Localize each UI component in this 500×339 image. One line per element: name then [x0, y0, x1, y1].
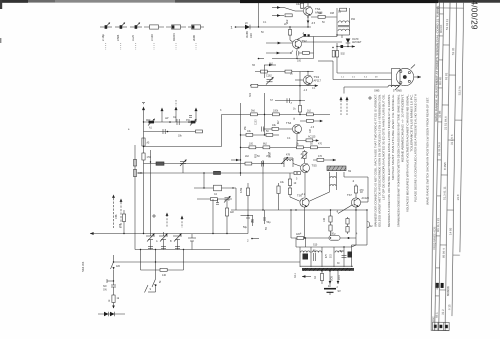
alignment table column line 4 [445, 3, 450, 331]
wire osc row 2 [197, 198, 232, 200]
switch contact arrow e [264, 64, 276, 67]
svg-text:8 4N5: 8 4N5 [443, 162, 447, 170]
resistor R43 [314, 271, 324, 284]
wire down to OT left [295, 238, 297, 247]
capacitor C31 [216, 199, 219, 204]
left film edge mark lower [0, 38, 1, 43]
wire row 71 [255, 71, 302, 73]
wire TS3 emitter row [250, 84, 318, 87]
wire TS2 collector up [297, 34, 337, 40]
svg-text:5O: 5O [266, 227, 268, 230]
svg-text:100: 100 [297, 60, 302, 63]
svg-text:C103: C103 [256, 119, 258, 125]
switch contact arrow a [272, 6, 295, 11]
node E [296, 147, 297, 148]
svg-text:X20: X20 [249, 33, 253, 38]
antenna stub 4 [195, 108, 198, 123]
switch SK2 contact [111, 255, 121, 281]
resistor R31 [142, 138, 150, 146]
dashed stub arrow 2 [346, 97, 349, 116]
wire TS6 base [290, 192, 330, 201]
resistor R45 [277, 183, 280, 210]
resistor R30 [294, 172, 300, 175]
wire SK right drop [145, 285, 156, 293]
wire TS3 base [295, 79, 303, 81]
svg-text:PLEASE DESIRE US CONTINUED LAT: PLEASE DESIRE US CONTINUED LATER DIE A P… [414, 94, 418, 202]
resistor R34 [156, 162, 164, 165]
transistor TS2 [293, 39, 308, 49]
svg-text:C58: C58 [115, 214, 118, 219]
wire coil bend [343, 87, 345, 94]
resistor R25 [297, 146, 304, 149]
capacitor C28 [275, 98, 305, 103]
svg-text:R/C04: R/C04 [172, 33, 176, 41]
wire TS1 emitter to bus [307, 16, 310, 28]
svg-text:S02: S02 [250, 92, 252, 97]
wire TS4 emitter down [296, 134, 298, 148]
trimmer C16 [188, 234, 196, 250]
wire row C left [144, 146, 222, 148]
IF transformer S6 [337, 8, 356, 35]
svg-text:22 31 54,6: 22 31 54,6 [437, 142, 441, 156]
wire speaker output arrow [414, 76, 421, 79]
transistor TS7 [347, 193, 369, 207]
svg-text:-1.3: -1.3 [303, 89, 308, 92]
diode detector GR2 [346, 38, 362, 47]
wire mid vertical left [134, 145, 136, 250]
ground arrow below core [294, 272, 311, 278]
resistor R26 [311, 146, 318, 149]
wire speaker feed 1 [337, 43, 392, 73]
svg-text:NOYER N'EST PAS UTILISE AVEC C: NOYER N'EST PAS UTILISE AVEC CE MODELE. [391, 94, 395, 180]
transistor TS5 [301, 164, 318, 173]
wire osc vertical c [235, 188, 237, 210]
top film edge bar [0, 0, 500, 3]
legend resistor R1 [144, 25, 164, 50]
alignment table row ticks [432, 8, 464, 296]
label NO ON [103, 285, 107, 292]
svg-text:5k6: 5k6 [251, 110, 256, 113]
transformer core [300, 266, 354, 271]
alignment table column line 2 [435, 2, 440, 330]
resistor R49 [214, 171, 221, 174]
wire speaker feed 2 [318, 61, 392, 80]
wire coil bus 1 [144, 121, 197, 123]
wire osc return [141, 250, 184, 271]
speaker line labels [341, 77, 378, 79]
svg-text:FREQ RANGE KC/S: FREQ RANGE KC/S [433, 226, 436, 249]
wire driver secondary right [344, 177, 368, 202]
resistor R11b [261, 70, 268, 73]
resistor R48 [225, 201, 234, 234]
interstage coupling S8 [281, 154, 293, 167]
svg-text:WAVE RANGE SWITCH SHOWN IN POS: WAVE RANGE SWITCH SHOWN IN POSITION LW S… [427, 97, 430, 205]
svg-text:1k2: 1k2 [307, 110, 312, 113]
resistor R5 top [296, 3, 308, 9]
resistor R36 [160, 268, 167, 276]
svg-text:K2.1: K2.1 [294, 272, 297, 278]
capacitor C19 [303, 251, 317, 262]
capacitor C17 [111, 281, 116, 295]
svg-text:KEINE ABWEICHUNG +/- 10 PROZEN: KEINE ABWEICHUNG +/- 10 PROZENT. [401, 94, 405, 162]
svg-text:C58: C58 [138, 172, 143, 175]
svg-text:S02: S02 [341, 53, 346, 56]
svg-text:C504: C504 [116, 34, 120, 41]
resistor R37 [112, 295, 120, 309]
ganged capacitor C14 [159, 232, 168, 250]
alignment table black square 2 [441, 283, 444, 288]
svg-text:TS2: TS2 [302, 39, 308, 43]
wire TS5 down [304, 173, 306, 197]
transistor TS4 [286, 121, 302, 134]
alignment table column line 3 [439, 2, 444, 330]
oscillator padder network [194, 172, 259, 242]
wire bus row B [241, 134, 265, 136]
node N1 [169, 121, 171, 123]
node M [305, 237, 306, 238]
switch contact arrow c [266, 42, 293, 45]
svg-text:S10: S10 [313, 244, 318, 247]
wire antenna vertical main [143, 122, 145, 234]
svg-text:TS1: TS1 [315, 7, 321, 11]
svg-text:AC128: AC128 [362, 197, 370, 200]
svg-text:8k2: 8k2 [263, 143, 268, 146]
svg-text:478: 478 [286, 154, 291, 157]
alignment table black square 1 [436, 283, 439, 288]
svg-text:3-w5: 3-w5 [131, 35, 135, 41]
wire emitter resistor row [291, 237, 356, 239]
resistor R41 [323, 210, 332, 234]
svg-text:SK4 W6: SK4 W6 [81, 261, 85, 272]
wire right secondary drop [352, 210, 374, 247]
svg-text:50μ: 50μ [243, 226, 248, 229]
left film edge mark top [0, 0, 2, 9]
svg-text:-6.5: -6.5 [311, 22, 316, 25]
legend capacitor C1 [100, 23, 112, 51]
transistor TS1 [304, 7, 324, 16]
svg-text:SO5: SO5 [331, 276, 334, 281]
svg-text:6 15: 6 15 [447, 304, 451, 310]
trimmer capacitor C27 [266, 75, 274, 85]
resistor R7 agc [332, 51, 345, 58]
wire battery lead [328, 271, 334, 288]
plus mark [368, 96, 372, 100]
svg-text:AM DET: AM DET [352, 41, 362, 44]
resistor R21 [264, 133, 279, 136]
winding labels [326, 253, 340, 265]
svg-text:TS5: TS5 [312, 164, 318, 168]
wire row D vertical [262, 160, 264, 210]
capacitor C9 [173, 117, 179, 125]
terminal 1 [231, 26, 246, 30]
antenna stub 2 [161, 108, 164, 123]
wire bus row C [241, 147, 331, 149]
alignment table rotated entries [432, 5, 463, 322]
resistor R8 bias [288, 26, 292, 42]
resistor R35 [115, 210, 126, 234]
wire drop 338 [337, 271, 342, 289]
wire bus supply [241, 215, 254, 217]
resistor R12 [285, 70, 292, 73]
wire osc vertical a [203, 173, 205, 188]
alignment table column line 6 [460, 3, 464, 252]
svg-text:452: 452 [351, 18, 356, 21]
svg-text:500: 500 [340, 250, 345, 253]
svg-text:TS7: TS7 [347, 193, 352, 197]
node D [299, 114, 300, 115]
trimmer pair b [161, 247, 166, 249]
svg-text:14 95: 14 95 [448, 227, 452, 235]
svg-text:31 2: 31 2 [441, 309, 445, 315]
earphone jack BU1 [98, 312, 125, 316]
resistor R4 [285, 14, 292, 24]
wire down to OT mid [305, 238, 307, 247]
trimmer capacitor C10 [188, 116, 196, 126]
resistor R46 [346, 217, 349, 234]
svg-text:C162: C162 [266, 75, 272, 78]
node F [240, 134, 241, 135]
legend capacitor C3 [130, 23, 142, 51]
svg-text:C65: C65 [270, 153, 272, 158]
svg-text:4 25: 4 25 [435, 284, 439, 290]
legend resistor R3 [188, 25, 204, 50]
svg-text:470: 470 [318, 143, 323, 146]
resistor R44 [240, 183, 250, 216]
svg-text:MW: MW [146, 119, 151, 122]
dashed stub arrow 1 [340, 97, 343, 116]
svg-text:130: 130 [323, 217, 326, 222]
resistor R15 [251, 113, 258, 116]
antenna stub 1 [142, 103, 145, 123]
svg-text:21 8: 21 8 [456, 194, 460, 200]
resistor R28 [245, 162, 252, 165]
node I [183, 249, 184, 250]
alignment table bottom box [432, 322, 449, 330]
capacitor C18 electrolytic [329, 232, 350, 240]
wire bus row A [222, 114, 331, 116]
svg-text:-1.5: -1.5 [310, 126, 315, 129]
resistor R16 [273, 113, 280, 116]
wire AVC long line [90, 232, 248, 235]
wire TS7 base link [338, 205, 352, 214]
switch SK1 contact [152, 279, 157, 292]
alignment table column line 1 [431, 2, 436, 330]
svg-text:OA85: OA85 [245, 31, 249, 38]
resistor R32 [142, 153, 151, 160]
svg-text:C58: C58 [120, 223, 122, 228]
svg-text:GM5: GM5 [374, 90, 380, 93]
svg-text:OSC: OSC [432, 316, 435, 322]
wire TS3 collector [302, 71, 314, 75]
node A [258, 26, 259, 27]
trimmer capacitor C24 [180, 160, 187, 174]
svg-text:8O8O8: 8O8O8 [446, 286, 450, 296]
svg-text:21 51 84,6: 21 51 84,6 [443, 116, 447, 130]
svg-text:31 1,5 6: 31 1,5 6 [450, 134, 454, 145]
svg-text:AF117: AF117 [314, 78, 322, 82]
alignment table bottom cap [431, 329, 449, 331]
resistor R38 [288, 173, 296, 197]
capacitor C20 [342, 252, 353, 258]
resistor R17 [307, 113, 314, 116]
capacitor C29 box [214, 185, 222, 191]
resistor R19 [272, 124, 292, 130]
svg-text:9V: 9V [338, 289, 341, 293]
transistor TS6 [297, 194, 309, 208]
resistor R22 [297, 136, 319, 142]
capacitor C11 [133, 160, 143, 177]
output transformer S10 [296, 244, 352, 267]
capacitor C26 [297, 51, 299, 56]
ganged capacitor C13 [146, 234, 155, 250]
svg-text:R30: R30 [256, 153, 258, 158]
trimmer capacitor C8 [148, 119, 155, 130]
capacitor C23 [263, 210, 271, 224]
ganged capacitor C15 [173, 234, 182, 250]
capacitor C7 [262, 161, 264, 167]
resistor R10 [299, 37, 314, 59]
legend resistor R2 [166, 25, 186, 50]
svg-text:51,3 61 11: 51,3 61 11 [442, 186, 446, 200]
resistor R50 [178, 130, 203, 138]
svg-text:140: 140 [162, 274, 167, 277]
resistor R14 [293, 106, 302, 113]
svg-text:TS4: TS4 [286, 121, 292, 125]
dial cord stub 1 [112, 195, 115, 229]
svg-text:3 100: 3 100 [150, 34, 154, 41]
wire TS1 base lead [295, 10, 303, 12]
wire bus row E [134, 172, 301, 174]
trimmer pair a [148, 247, 153, 249]
svg-text:91 81: 91 81 [444, 72, 448, 80]
switch contact arrow g [231, 159, 241, 162]
svg-text:51 61 11: 51 61 11 [445, 19, 449, 30]
svg-text:470: 470 [318, 155, 323, 158]
legend capacitor C2 [115, 23, 127, 51]
capacitor C22 [251, 216, 254, 227]
svg-text:1: 1 [231, 26, 233, 30]
node J [155, 261, 156, 262]
trimmer pair c [175, 247, 180, 249]
svg-text:470k: 470k [240, 187, 243, 193]
wire TS3 column [299, 72, 301, 115]
wire TS7 emitter down [355, 207, 357, 245]
wire bus A vertical [258, 3, 260, 27]
antenna stub 3 [175, 100, 178, 122]
wire osc vertical b [212, 199, 213, 234]
svg-text:5" GM5: 5" GM5 [393, 89, 402, 93]
diode GR1 [245, 25, 259, 38]
capacitor C21 [243, 216, 250, 229]
wire bus B vertical [264, 65, 266, 78]
gang link arrow 3 [181, 216, 184, 229]
svg-text:AC125: AC125 [308, 136, 316, 139]
node L [330, 209, 331, 210]
capacitor C6 [262, 127, 273, 132]
trimmer capacitor C30 [224, 196, 231, 203]
svg-text:2O3: 2O3 [338, 275, 341, 280]
resistor R42 [296, 233, 304, 239]
node C [264, 114, 265, 115]
wire coil bus 2 [144, 131, 204, 133]
wire top collector bus [259, 26, 312, 28]
wire TS6 left vertical [290, 210, 292, 238]
node K [107, 279, 114, 283]
wire IFT bottom [337, 34, 350, 36]
svg-text:52,5 %: 52,5 % [458, 86, 462, 95]
wire TS2 emitter bus [258, 49, 314, 60]
wire TS5 base [293, 164, 301, 167]
resistor R39 [354, 184, 364, 198]
switch contact arrow b [272, 14, 284, 17]
wire bus mid [231, 209, 367, 211]
svg-text:LET OP DE GOEDKOPLIN ALNOTED 3: LET OP DE GOEDKOPLIN ALNOTED 31-E2 GITE … [382, 94, 386, 200]
wire osc row 1 [194, 187, 236, 189]
svg-text:85 96 4: 85 96 4 [442, 248, 446, 258]
wire detector output [336, 45, 355, 48]
resistor R47 [211, 198, 218, 201]
svg-text:2k2: 2k2 [245, 155, 250, 158]
resistor R20 [246, 133, 253, 136]
resistor R23 [249, 146, 256, 149]
resistor R24 [263, 146, 270, 149]
rotated value labels [109, 92, 312, 302]
node G [240, 147, 241, 148]
node H [240, 159, 241, 160]
battery B1 [324, 289, 341, 295]
wire IFT2 down [264, 93, 266, 135]
wire bus row D [144, 163, 285, 165]
gang link arrow 1 [152, 214, 156, 218]
svg-text:100: 100 [249, 143, 254, 146]
svg-text:54/00/29: 54/00/29 [470, 0, 479, 30]
wire step vertical [221, 115, 223, 147]
svg-text:ON: ON [103, 289, 107, 292]
svg-text:2k06: 2k06 [192, 35, 196, 41]
capacitor C32 [163, 129, 168, 134]
svg-text:1k5: 1k5 [116, 265, 121, 268]
svg-text:468: 468 [330, 12, 335, 15]
wire TS6 emitter down [304, 207, 306, 238]
wire switch drop [155, 250, 157, 280]
wire OT right junction [343, 245, 356, 248]
svg-text:TS3: TS3 [314, 75, 320, 79]
svg-text:C47: C47 [310, 128, 312, 133]
transistor TS3 [304, 75, 322, 85]
svg-text:250μ: 250μ [330, 232, 336, 235]
voice coil winding [344, 85, 399, 92]
wire gang bottom bus [135, 249, 230, 251]
alignment table column line 5 [452, 3, 457, 316]
svg-text:8k2: 8k2 [269, 63, 274, 66]
resistor R29 [313, 158, 336, 161]
resistor R6 [311, 12, 337, 18]
driver transformer S9 [327, 166, 352, 192]
resistor R18 [300, 119, 323, 122]
wire TS2 collector to IFT [301, 35, 342, 42]
loudspeaker [392, 65, 416, 93]
terminal 2 [247, 238, 259, 243]
svg-text:100k: 100k [273, 110, 279, 113]
svg-text:52 35: 52 35 [451, 47, 455, 55]
svg-text:50μ: 50μ [267, 221, 272, 224]
dial cord stub 2 [120, 199, 123, 229]
potentiometer R27 volume [266, 150, 308, 163]
node B [296, 58, 297, 59]
switch contact arrow d [266, 52, 292, 55]
gang link arrow 2 [166, 213, 169, 228]
svg-text:2-18p: 2-18p [101, 34, 105, 41]
